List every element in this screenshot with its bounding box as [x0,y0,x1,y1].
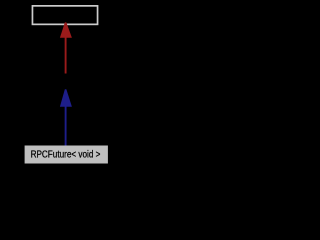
svg-text:RPCFuture< void >: RPCFuture< void > [31,149,101,160]
